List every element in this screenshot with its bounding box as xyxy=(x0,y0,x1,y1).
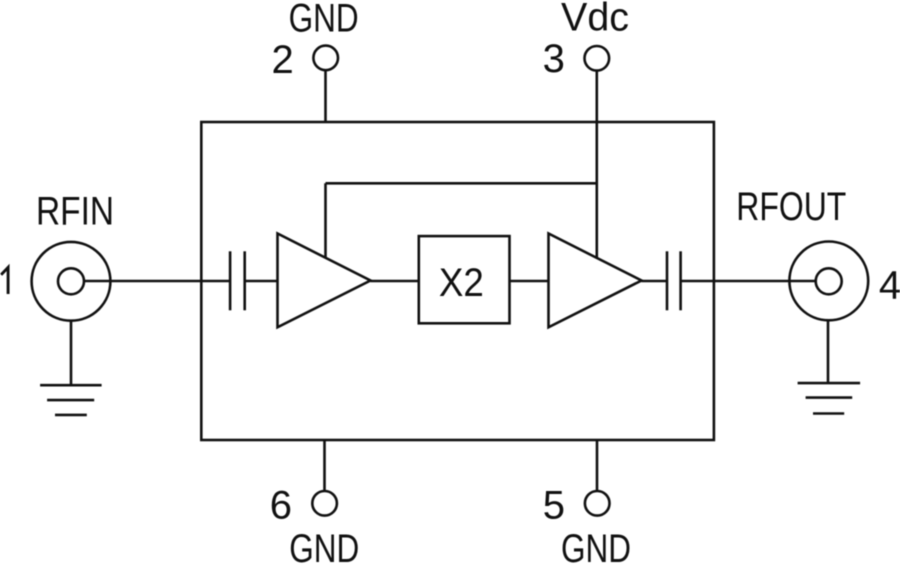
multiplier X2 block xyxy=(419,236,510,323)
pin 5 terminal circle xyxy=(585,491,610,516)
connector J2 RFOUT center pin circle xyxy=(816,268,842,294)
amplifier A2 triangle xyxy=(549,234,642,328)
pin number 1 xyxy=(1,267,8,294)
ground symbol at J2 bar 2 xyxy=(806,396,853,399)
ground symbol at J2 bar 1 xyxy=(798,382,861,385)
wire pin 5 to package bottom xyxy=(596,440,599,491)
svg-text:4: 4 xyxy=(879,263,900,307)
capacitor C2 right plate xyxy=(679,251,682,310)
amplifier A1 triangle xyxy=(278,234,371,328)
pin 6 terminal circle xyxy=(312,491,337,516)
wire pin 2 to package top xyxy=(324,71,327,122)
svg-text:3: 3 xyxy=(543,37,565,81)
wire A2 to capacitor C2 xyxy=(642,280,668,283)
package outline U1 xyxy=(201,122,714,440)
svg-text:RFIN: RFIN xyxy=(36,189,114,233)
wire C1 to amplifier A1 xyxy=(245,280,278,283)
svg-text:6: 6 xyxy=(270,484,292,528)
wire bias rail horizontal xyxy=(326,182,597,185)
ground symbol at J2 bar 3 xyxy=(813,412,844,415)
svg-text:GND: GND xyxy=(289,0,359,40)
capacitor C2 left plate xyxy=(666,251,669,310)
wire bias drop to amplifier A1 xyxy=(324,183,327,258)
svg-text:RFOUT: RFOUT xyxy=(736,185,846,229)
svg-text:GND: GND xyxy=(561,527,631,566)
svg-text:Vdc: Vdc xyxy=(561,0,629,40)
wire J2 shield to ground xyxy=(827,320,830,383)
svg-text:5: 5 xyxy=(543,484,565,528)
capacitor C1 left plate xyxy=(229,251,232,310)
pin 3 terminal circle xyxy=(585,46,610,71)
pin 2 terminal circle xyxy=(313,46,338,71)
ground symbol at J1 bar 1 xyxy=(40,384,102,387)
ground symbol at J1 bar 3 xyxy=(55,414,87,417)
ground symbol at J1 bar 2 xyxy=(47,399,94,402)
connector J1 RFIN outer circle xyxy=(32,242,111,321)
wire A1 to X2 block xyxy=(371,280,419,283)
svg-text:2: 2 xyxy=(271,38,293,82)
connector J2 RFOUT outer circle xyxy=(789,242,868,321)
wire J1 shield to ground xyxy=(70,321,73,386)
capacitor C1 right plate xyxy=(243,251,246,310)
svg-text:GND: GND xyxy=(289,527,359,566)
connector J1 RFIN center pin circle xyxy=(58,268,84,294)
wire pin 3 (Vdc) down to amplifier A2 bias xyxy=(595,71,598,258)
wire pin 6 to package bottom xyxy=(323,440,326,491)
svg-text:X2: X2 xyxy=(439,261,484,305)
wire X2 block to amplifier A2 xyxy=(510,280,549,283)
wire C2 to connector J2 RFOUT xyxy=(681,280,816,283)
wire J1 to capacitor C1 xyxy=(84,280,230,283)
